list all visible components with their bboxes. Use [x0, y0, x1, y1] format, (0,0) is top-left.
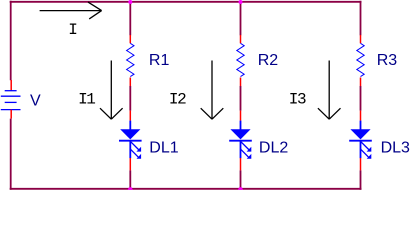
- wire: b3 pin above DL3 (red): [360, 111, 362, 121]
- wire: b1 bottom (purple): [129, 170, 131, 189]
- resistor R1: [127, 43, 134, 76]
- svg-text:I: I: [68, 21, 77, 39]
- wire: b2 bottom (purple): [240, 170, 242, 189]
- wire: b1 pin below DL1 (red): [129, 158, 131, 170]
- wire: b1 pin below R1 (red): [129, 78, 131, 87]
- diode DL2: [229, 121, 252, 159]
- svg-text:I1: I1: [78, 91, 95, 109]
- wire: b1 middle (purple): [129, 86, 131, 111]
- wire: b2 middle (purple): [240, 86, 242, 111]
- svg-text:V: V: [30, 92, 41, 109]
- junction dot b1 bottom: [128, 187, 133, 190]
- wire: b2 pin below DL2 (red): [240, 158, 242, 170]
- wire: b2 pin above DL2 (red): [240, 111, 242, 121]
- svg-text:I2: I2: [169, 91, 186, 109]
- current arrow I1: [100, 61, 123, 120]
- resistor R3: [357, 43, 364, 76]
- wire: b2 pin above R2 (red): [240, 35, 242, 43]
- junction dot b2 bottom: [238, 187, 243, 190]
- wire: b2 top (purple): [240, 1, 242, 36]
- wire: b3 middle (purple): [360, 86, 362, 111]
- wire: b1 pin above R1 (red): [129, 35, 131, 43]
- svg-text:I3: I3: [289, 91, 306, 109]
- wire: b1 pin above DL1 (red): [129, 111, 131, 121]
- wire: left vertical lower: [10, 119, 12, 190]
- wire: b3 pin below DL3 (red): [360, 158, 362, 170]
- wire: top bus: [10, 1, 362, 3]
- diode DL1: [119, 121, 142, 159]
- current arrow I (top): [40, 2, 102, 19]
- svg-text:R1: R1: [149, 52, 170, 69]
- wire: b2 pin below R2 (red): [240, 78, 242, 87]
- wire: b3 vertical upper (purple): [360, 1, 362, 36]
- svg-text:R3: R3: [377, 52, 398, 69]
- wire: battery top pin (red): [10, 80, 12, 91]
- battery V plates: [1, 91, 21, 110]
- resistor R2: [237, 43, 244, 76]
- diode DL3: [349, 121, 372, 159]
- svg-text:DL3: DL3: [381, 140, 410, 157]
- wire: bottom bus: [10, 188, 362, 190]
- junction dot b2 top: [239, 0, 243, 4]
- wire: b1 top (purple): [129, 1, 131, 36]
- junction dot b1 top: [128, 0, 132, 4]
- current arrow I2: [201, 61, 224, 120]
- svg-text:DL2: DL2: [259, 140, 288, 157]
- wire: b3 vertical lower (purple): [360, 170, 362, 189]
- wire: b3 pin below R3 (red): [360, 78, 362, 87]
- wire: battery bottom pin (red): [10, 110, 12, 119]
- current arrow I3: [318, 61, 341, 120]
- svg-text:DL1: DL1: [149, 140, 178, 157]
- wire: left vertical upper: [10, 1, 12, 80]
- wire: b3 pin above R3 (red): [360, 35, 362, 43]
- svg-text:R2: R2: [258, 52, 279, 69]
